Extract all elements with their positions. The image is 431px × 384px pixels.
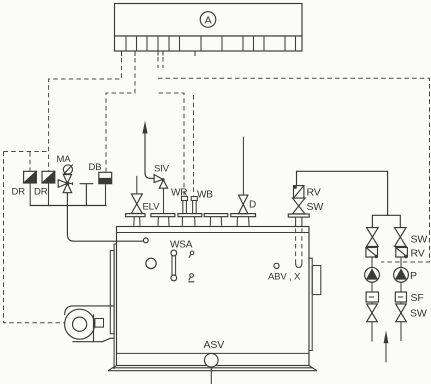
boiler right tab xyxy=(312,266,321,295)
check valve RV on boiler xyxy=(294,171,388,215)
valve D xyxy=(239,137,248,214)
flange RV xyxy=(288,214,309,217)
svg-text:RV: RV xyxy=(411,248,425,260)
return inlet circle xyxy=(143,238,148,243)
flange SIV xyxy=(151,214,175,226)
svg-text:SW: SW xyxy=(307,201,324,213)
pipe RV into boiler xyxy=(296,217,302,227)
boiler front circle xyxy=(146,258,156,268)
control wire to DR2 xyxy=(49,58,122,171)
safety valve SIV xyxy=(154,175,168,214)
boiler body xyxy=(108,227,317,371)
svg-text:ELV: ELV xyxy=(143,202,161,213)
wire MA to boiler return xyxy=(67,193,143,242)
check valve RV right riser xyxy=(396,248,408,259)
check valve RV left riser xyxy=(366,248,378,259)
svg-text:WSA: WSA xyxy=(170,240,193,251)
svg-text:DR: DR xyxy=(12,187,26,198)
valve SW on boiler xyxy=(293,198,306,214)
svg-text:DB: DB xyxy=(89,162,102,173)
boiler left jacket strip xyxy=(114,244,116,369)
discharge arrow xyxy=(142,121,154,179)
sensor DR1 xyxy=(24,171,37,183)
svg-text:ABV , X: ABV , X xyxy=(268,272,301,283)
svg-text:SF: SF xyxy=(411,292,424,304)
gauge cock upper xyxy=(189,251,194,258)
svg-text:ASV: ASV xyxy=(204,339,225,351)
capped stub xyxy=(80,184,93,206)
sensor pocket WB xyxy=(191,197,197,214)
control wire to DB xyxy=(106,58,135,172)
svg-text:WB: WB xyxy=(197,190,213,201)
flange WR WB xyxy=(178,214,202,226)
valve SW right riser xyxy=(395,228,407,247)
flange spare xyxy=(204,214,228,226)
control wire stub 1 xyxy=(157,57,159,68)
right header xyxy=(372,215,400,227)
boiler left tab xyxy=(110,251,114,334)
gauge cock lower xyxy=(188,274,194,282)
blowdown circle ABV xyxy=(274,263,279,268)
dashed stub to DR1 xyxy=(29,152,31,171)
control wire to right pumps xyxy=(158,78,430,262)
wire DB to bus xyxy=(105,184,107,206)
dashed dip pipe xyxy=(296,229,302,268)
flange D xyxy=(231,214,256,226)
wire DR2 to bus xyxy=(48,183,50,206)
boiler right jacket strip xyxy=(309,258,312,350)
flow arrow xyxy=(384,330,389,362)
valve SW lower right xyxy=(396,302,407,341)
strainer SF left xyxy=(366,282,378,302)
control wire stub 2 xyxy=(162,57,164,68)
sensor DB xyxy=(99,172,112,183)
svg-text:DR: DR xyxy=(34,187,48,198)
valve SW left riser xyxy=(367,228,379,247)
left dashed enclosure xyxy=(4,152,65,323)
burner xyxy=(65,306,114,342)
svg-text:SW: SW xyxy=(410,308,427,320)
sensor bus xyxy=(30,205,106,207)
actuator MA xyxy=(63,165,72,174)
water level gauge WSA xyxy=(171,250,177,281)
sensor DR2 xyxy=(42,171,55,183)
svg-text:RV: RV xyxy=(307,187,321,199)
terminal strip xyxy=(115,36,303,51)
control wire to WB xyxy=(193,95,195,196)
valve ELV xyxy=(131,176,142,214)
pump P right xyxy=(394,257,409,282)
sensor pocket WR xyxy=(182,197,188,214)
svg-text:SW: SW xyxy=(411,234,428,246)
control panel U-A xyxy=(115,4,303,37)
svg-text:A: A xyxy=(205,14,212,26)
svg-text:SIV: SIV xyxy=(154,164,170,175)
valve SW lower left xyxy=(367,302,378,342)
strainer SF right xyxy=(395,282,406,302)
wire DR1 to bus xyxy=(29,183,31,206)
control wire to WR xyxy=(159,93,185,196)
flange ELV xyxy=(126,214,145,226)
drain valve ASV xyxy=(205,353,219,384)
pump P left xyxy=(365,257,380,282)
svg-text:P: P xyxy=(410,270,417,282)
controller symbol A xyxy=(200,12,216,28)
terminal ticks xyxy=(122,51,196,56)
valve MA three-way xyxy=(58,175,72,193)
svg-text:D: D xyxy=(249,200,256,211)
svg-text:MA: MA xyxy=(57,154,72,165)
